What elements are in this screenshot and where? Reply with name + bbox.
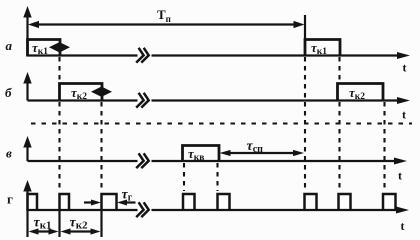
- svg-text:t: t: [398, 169, 402, 183]
- svg-text:t: t: [402, 108, 406, 122]
- svg-text:б: б: [5, 85, 12, 100]
- svg-text:г: г: [7, 192, 13, 207]
- svg-text:t: t: [403, 61, 407, 75]
- svg-text:а: а: [6, 38, 13, 53]
- svg-text:в: в: [6, 146, 12, 161]
- svg-text:t: t: [401, 219, 405, 233]
